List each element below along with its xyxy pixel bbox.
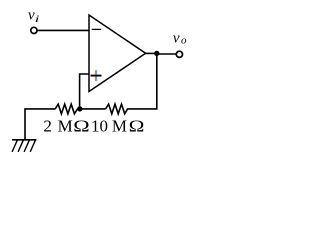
wire vi to op-amp inverting input <box>37 29 90 31</box>
wire op-amp output <box>145 52 158 54</box>
op-amp non-inverting input marker (+) <box>91 70 102 81</box>
label vo <box>173 31 187 47</box>
svg-text:M: M <box>58 117 73 136</box>
wire R2 to node A <box>77 108 105 110</box>
svg-text:i: i <box>35 14 40 24</box>
node output junction <box>154 51 159 56</box>
wire output junction to vo terminal <box>157 53 177 55</box>
resistor R2 10 Mohm <box>106 104 128 114</box>
svg-text:Ω: Ω <box>129 117 145 136</box>
ground <box>12 140 36 152</box>
wire non-inverting input stub from node A <box>80 74 90 109</box>
op-amp U1 <box>89 15 146 92</box>
input terminal vi <box>31 27 37 33</box>
op-amp inverting input marker (-) <box>92 28 102 30</box>
svg-text:v: v <box>173 31 180 47</box>
output terminal vo <box>176 51 182 57</box>
wire feedback from output junction down to R2 <box>127 53 157 109</box>
label 2 Mohm <box>43 117 89 136</box>
label vi <box>28 7 40 24</box>
svg-text:Ω: Ω <box>73 117 89 136</box>
resistor R1 2 Mohm <box>55 104 77 114</box>
svg-text:2: 2 <box>43 117 52 136</box>
svg-text:M: M <box>112 117 127 136</box>
svg-text:o: o <box>181 35 187 47</box>
node A junction (+ input, R1, R2) <box>77 106 82 111</box>
wire R1 to ground <box>25 109 55 140</box>
label 10 Mohm <box>91 117 144 136</box>
svg-text:10: 10 <box>91 117 108 136</box>
